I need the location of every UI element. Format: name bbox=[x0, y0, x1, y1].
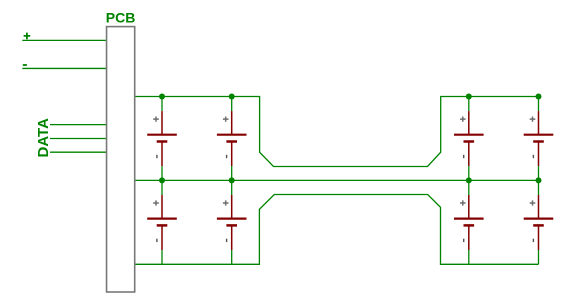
svg-text:PCB: PCB bbox=[106, 10, 136, 26]
svg-text:DATA: DATA bbox=[35, 118, 52, 158]
